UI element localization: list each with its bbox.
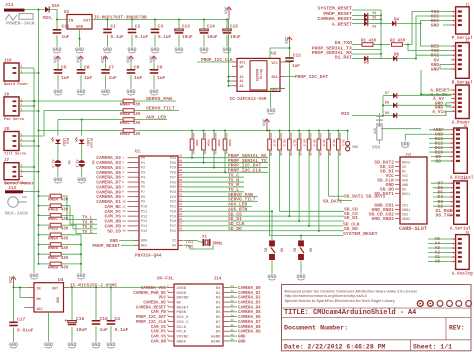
- wire A_3.3V: [421, 70, 451, 94]
- ic U1 P8X32A outline: [135, 150, 178, 250]
- svg-text:C6: C6: [84, 65, 90, 71]
- wire U3 GND down: [79, 29, 81, 46]
- svg-text:R1 430: R1 430: [361, 40, 377, 44]
- svg-text:P2: P2: [141, 167, 145, 171]
- svg-text:CAMERA_NC: CAMERA_NC: [143, 301, 166, 305]
- camera connector J14 outline: [157, 275, 223, 346]
- wires J6 nets: [428, 239, 451, 262]
- crystal X1: [184, 236, 223, 250]
- capacitor C1: [103, 20, 124, 46]
- diode D1: [323, 11, 381, 18]
- label IC-MCP1703T-3002E/DB: [94, 15, 147, 20]
- svg-text:AVDD: AVDD: [177, 287, 187, 291]
- svg-text:24: 24: [231, 310, 235, 313]
- camera connector J14 right pins: [211, 285, 261, 344]
- svg-text:PROP_I2C_DAT: PROP_I2C_DAT: [136, 316, 167, 320]
- capacitor C11: [53, 20, 70, 46]
- svg-text:SD_CD: SD_CD: [107, 228, 121, 234]
- svg-text:SD_D: SD_D: [293, 140, 296, 147]
- voltage regulator U3: [64, 11, 92, 29]
- svg-text:10uF: 10uF: [76, 327, 87, 333]
- resistor RN4D: [120, 129, 141, 137]
- resistor RN6D: [39, 262, 69, 270]
- svg-text:Special thanks to SparkFun Ele: Special thanks to SparkFun Electronics f…: [285, 299, 396, 303]
- diode D5: [335, 55, 381, 66]
- ground under U3: [75, 46, 84, 54]
- resistor pullup R24 10K: [297, 131, 305, 222]
- svg-text:15: 15: [122, 225, 126, 228]
- svg-text:J1: J1: [465, 3, 469, 7]
- card slot J13 data pins: [374, 159, 410, 197]
- ic U2 EEPROM: [232, 51, 285, 93]
- svg-text:DI: DI: [402, 170, 406, 174]
- wire MIX net: [341, 111, 383, 117]
- svg-text:CAMERA_D0: CAMERA_D0: [238, 287, 261, 291]
- wire J1 TXO: [412, 12, 451, 45]
- power jack J11 pad bar: [4, 2, 25, 12]
- connector J2 B_Serial: [451, 38, 473, 85]
- svg-text:14: 14: [122, 220, 126, 223]
- svg-text:C4: C4: [115, 316, 121, 322]
- title block TITLE row: [284, 309, 416, 317]
- svg-text:J4: J4: [463, 177, 467, 181]
- wire PROP_SERIAL_TX right: [312, 45, 381, 51]
- svg-text:U2: U2: [271, 51, 277, 57]
- svg-text:RN5A 430: RN5A 430: [48, 199, 69, 203]
- svg-text:ADJ: ADJ: [37, 308, 43, 312]
- ground under C6: [76, 88, 85, 96]
- svg-text:Document Number:: Document Number:: [284, 325, 348, 333]
- diode D3: [332, 21, 381, 29]
- svg-text:D0_TXO: D0_TXO: [335, 40, 352, 46]
- svg-text:34: 34: [179, 189, 183, 192]
- svg-text:P28: P28: [170, 172, 176, 176]
- svg-text:REV:: REV:: [449, 325, 465, 332]
- svg-text:P3: P3: [141, 172, 145, 176]
- svg-text:SD_D: SD_D: [273, 140, 276, 147]
- resistor RN4A: [120, 99, 141, 107]
- wire SJ2 down: [57, 167, 59, 176]
- title block layer circles: [417, 301, 471, 307]
- ground RN6 bus: [76, 272, 85, 280]
- svg-text:P23: P23: [170, 196, 176, 200]
- svg-text:J11: J11: [5, 2, 14, 8]
- svg-text:16: 16: [122, 230, 126, 233]
- svg-text:Red: Red: [65, 138, 70, 144]
- svg-text:D7: D7: [385, 92, 389, 96]
- svg-text:D5: D5: [364, 62, 370, 66]
- svg-text:OUT: OUT: [83, 20, 91, 24]
- ground under SJ2: [53, 176, 62, 184]
- wire AUX_BTN net: [184, 206, 274, 212]
- svg-text:GND: GND: [238, 336, 246, 340]
- svg-text:SD_D: SD_D: [302, 140, 305, 147]
- svg-text:SD_D: SD_D: [322, 140, 325, 147]
- svg-text:C16: C16: [76, 316, 85, 322]
- jumper SJ3 mix select: [346, 131, 359, 151]
- ground under C3: [150, 46, 159, 54]
- label PROP_RESET at RES: [92, 243, 136, 249]
- svg-text:CAMERA_D7: CAMERA_D7: [238, 321, 261, 325]
- svg-text:CAMERA_PWR_NC: CAMERA_PWR_NC: [133, 292, 166, 296]
- capacitor C7: [101, 63, 117, 88]
- svg-text:NC: NC: [177, 301, 182, 305]
- wire J10 pin stubs: [19, 68, 39, 73]
- labels J5 pins: [433, 127, 444, 164]
- svg-text:R1: R1: [203, 151, 206, 155]
- wire AUX_LED: [134, 115, 167, 121]
- title block frame: [282, 285, 472, 351]
- label P8X32A-Q44: [135, 253, 162, 258]
- wire SD_DAT2 net: [323, 199, 352, 205]
- svg-text:DOVDD: DOVDD: [177, 297, 190, 301]
- svg-text:C12: C12: [293, 54, 301, 59]
- svg-text:24: 24: [231, 295, 235, 298]
- capacitor C16: [65, 288, 88, 341]
- labels J2 pins: [431, 44, 440, 73]
- wire B1 down: [271, 260, 273, 272]
- button B2: [292, 240, 312, 260]
- svg-text:C8: C8: [134, 65, 140, 71]
- ground C10: [91, 341, 100, 349]
- svg-text:D7: D7: [216, 321, 221, 325]
- wire J1 GND: [443, 24, 451, 26]
- resistor pullup R26 10K: [317, 131, 325, 231]
- wire U2 SDA net: [285, 74, 328, 80]
- wire RN4D left: [39, 130, 123, 132]
- card slot J13 detect pins: [369, 203, 410, 222]
- svg-text:0.1uF: 0.1uF: [158, 35, 172, 40]
- svg-text:Sheet: 1/1: Sheet: 1/1: [413, 344, 452, 351]
- svg-text:LED2: LED2: [61, 138, 65, 146]
- resistor pullup R23 10K: [288, 131, 296, 217]
- power VCC arrow above C5: [54, 55, 60, 63]
- wire system reset bus vertical: [269, 234, 271, 236]
- svg-text:C5: C5: [61, 65, 67, 71]
- label J12: [8, 185, 17, 191]
- wire U3 OUT rail VCC: [92, 19, 229, 21]
- svg-text:27: 27: [179, 223, 183, 226]
- wire tilt servo signal: [19, 111, 123, 137]
- label SD_CLK right: [343, 222, 360, 228]
- solder jumper SJ_1: [74, 160, 94, 168]
- svg-text:SD_D: SD_D: [342, 140, 345, 147]
- svg-text:D1: D1: [216, 292, 221, 296]
- wire J2 RES: [421, 24, 452, 47]
- svg-text:IN: IN: [37, 288, 41, 292]
- wire A_RESET stub: [450, 89, 451, 91]
- svg-text:RN4C 430: RN4C 430: [120, 122, 141, 126]
- capacitor C2: [128, 20, 149, 46]
- ic U1 right pins P31-P16 XI XO: [170, 155, 184, 249]
- capacitor C6: [77, 63, 93, 88]
- svg-text:J2: J2: [465, 38, 469, 42]
- svg-text:P5: P5: [141, 181, 145, 185]
- svg-text:J3: J3: [465, 81, 469, 85]
- svg-text:TV_C: TV_C: [82, 230, 93, 235]
- ground under C13: [174, 46, 183, 54]
- wire SYSTEM_RESET top: [317, 5, 381, 11]
- ground under C9: [149, 88, 158, 96]
- ground under C11: [52, 46, 61, 54]
- connector J7 Servo Power: [4, 159, 28, 186]
- svg-text:CAMERA_D1: CAMERA_D1: [238, 292, 261, 296]
- svg-text:C11: C11: [62, 25, 70, 30]
- svg-text:10K: 10K: [319, 133, 322, 139]
- diode D7: [383, 92, 451, 98]
- svg-text:POWER-JACK: POWER-JACK: [6, 21, 35, 27]
- svg-text:VCC: VCC: [225, 6, 229, 14]
- wire J5 GND: [405, 134, 449, 140]
- svg-text:GND: GND: [57, 297, 61, 303]
- power VCC arrow above C9: [150, 55, 156, 63]
- svg-text:P10: P10: [141, 206, 147, 210]
- svg-text:RN6A 430: RN6A 430: [48, 237, 69, 241]
- svg-text:D5: D5: [216, 311, 221, 315]
- svg-text:30: 30: [179, 208, 183, 211]
- wire bus A vertical: [38, 10, 40, 265]
- ic U4 MIC5255: [28, 277, 70, 312]
- svg-text:D8: D8: [435, 158, 441, 164]
- resistor RN5A: [39, 194, 69, 202]
- svg-text:C3: C3: [158, 25, 164, 30]
- svg-text:C9: C9: [157, 65, 163, 71]
- svg-text:PROP: PROP: [207, 140, 210, 147]
- wire D8 net: [431, 160, 449, 162]
- label SD_DI right: [344, 215, 358, 221]
- camera connector J14 left pins: [133, 285, 189, 344]
- ground under C8: [126, 88, 135, 96]
- svg-text:J5: J5: [463, 124, 467, 128]
- svg-text:10K: 10K: [225, 133, 228, 139]
- svg-text:HREF: HREF: [177, 340, 187, 344]
- svg-text:PWDN: PWDN: [177, 311, 187, 315]
- svg-text:D3: D3: [373, 25, 377, 29]
- svg-text:RN4B 430: RN4B 430: [120, 113, 141, 117]
- resistor pullup R25 10K: [307, 131, 315, 226]
- resistor RN4C: [120, 118, 141, 126]
- svg-text:RN6C 430: RN6C 430: [48, 257, 69, 261]
- wire SERVO_PAN net: [184, 192, 259, 198]
- svg-text:P21: P21: [170, 206, 176, 210]
- connector J8 Tilt Servo: [4, 128, 27, 157]
- svg-text:CAMERA_RESET: CAMERA_RESET: [136, 306, 167, 310]
- wire J8 stubs: [19, 141, 39, 146]
- wire PROP_SERIAL_RX right: [312, 50, 381, 56]
- svg-text:Servo Power: Servo Power: [4, 180, 35, 186]
- svg-text:NO: NO: [308, 248, 312, 252]
- capacitor C10: [92, 288, 108, 341]
- svg-text:10K: 10K: [299, 151, 302, 156]
- svg-text:D1_RXI: D1_RXI: [335, 55, 352, 61]
- svg-text:CAMERA_VCC: CAMERA_VCC: [141, 287, 167, 291]
- svg-text:RN5C 430: RN5C 430: [48, 218, 69, 222]
- resistor R2 430: [381, 40, 412, 47]
- svg-text:LED1: LED1: [85, 138, 89, 146]
- svg-text:10K: 10K: [289, 151, 292, 156]
- svg-text:P0: P0: [141, 157, 145, 161]
- svg-text:VCC: VCC: [102, 55, 106, 63]
- svg-text:D10: D10: [52, 5, 60, 9]
- svg-text:R1: R1: [214, 151, 217, 155]
- svg-text:31: 31: [179, 203, 183, 206]
- svg-text:P30: P30: [170, 162, 176, 166]
- capacitor C15: [223, 20, 241, 46]
- wire J9 stubs: [19, 106, 39, 111]
- label IC-MIC5255: [70, 283, 117, 289]
- diode D9: [383, 111, 451, 118]
- svg-text:IN: IN: [69, 20, 74, 24]
- svg-text:SERVO_PAN: SERVO_PAN: [146, 96, 172, 102]
- svg-text:10uF: 10uF: [230, 35, 241, 40]
- svg-text:TITLE: CMUcam4ArduinoShield -: TITLE: CMUcam4ArduinoShield - A4: [284, 309, 416, 317]
- svg-text:VCC: VCC: [286, 36, 290, 44]
- resistor RN6A: [39, 233, 69, 241]
- svg-text:J13: J13: [405, 154, 411, 158]
- svg-text:D1: D1: [373, 11, 377, 15]
- svg-text:24: 24: [231, 324, 235, 327]
- wire TV_L net: [184, 187, 245, 193]
- svg-text:24: 24: [231, 314, 235, 317]
- ground U4: [44, 341, 53, 349]
- svg-text:RESET: RESET: [177, 306, 190, 310]
- title block license text: [285, 290, 418, 303]
- svg-text:10K: 10K: [338, 133, 341, 139]
- svg-text:RN5B 430: RN5B 430: [48, 208, 69, 212]
- svg-text:41: 41: [179, 155, 183, 158]
- wire PROP_I2C_CLK top: [197, 58, 233, 63]
- power VCC arrow top rail: [225, 6, 231, 20]
- svg-text:C14: C14: [207, 25, 215, 30]
- svg-text:D4: D4: [394, 19, 400, 23]
- svg-text:RN4A 430: RN4A 430: [120, 104, 141, 108]
- svg-text:D2: D2: [216, 297, 221, 301]
- capacitor C12: [270, 43, 301, 131]
- wire VCC to U4 IN: [13, 287, 29, 289]
- wire B2 up: [300, 236, 302, 240]
- svg-text:33: 33: [179, 193, 183, 196]
- wire SD_CD net: [280, 207, 359, 213]
- svg-text:10uF: 10uF: [182, 35, 193, 40]
- led LED1 Green: [75, 138, 93, 149]
- svg-text:10: 10: [122, 200, 126, 203]
- connector J11 POWER-JACK symbol: [5, 14, 35, 27]
- svg-text:CD2: CD2: [402, 213, 408, 217]
- svg-text:VCC: VCC: [150, 55, 154, 63]
- svg-text:+: +: [65, 319, 68, 324]
- ground B1: [267, 273, 276, 281]
- svg-text:SJ_2: SJ_2: [50, 160, 54, 168]
- svg-text:SD_DO: SD_DO: [228, 226, 242, 232]
- ic U1 left pins P0-P15 BOE RES: [122, 157, 147, 249]
- label Servo Power J7: [4, 180, 35, 186]
- svg-text:BOE: BOE: [141, 240, 147, 244]
- connector J6 A_Analog: [451, 230, 473, 276]
- svg-text:29: 29: [179, 213, 183, 216]
- wire AREF: [381, 129, 449, 130]
- svg-text:PROP_RESET: PROP_RESET: [92, 243, 120, 249]
- svg-text:P27: P27: [170, 176, 176, 180]
- svg-text:P_Serial: P_Serial: [452, 36, 473, 41]
- svg-text:Array: Array: [259, 69, 264, 79]
- svg-text:P12: P12: [141, 215, 147, 219]
- svg-text:RSV2: RSV2: [402, 161, 410, 165]
- resistor RN5B: [39, 204, 69, 212]
- svg-text:A_Digital: A_Digital: [450, 175, 474, 180]
- svg-text:10K: 10K: [279, 133, 282, 139]
- power VCC arrow U4: [10, 275, 16, 287]
- labels J3 pins: [430, 88, 450, 115]
- ground C4: [106, 341, 115, 349]
- svg-text:CAM_PC: CAM_PC: [151, 331, 167, 335]
- svg-text:10K: 10K: [309, 133, 312, 139]
- svg-text:PROP: PROP: [195, 140, 198, 147]
- svg-text:GND: GND: [238, 340, 246, 344]
- svg-text:Pan Servo: Pan Servo: [4, 118, 25, 122]
- svg-text:1uF: 1uF: [84, 75, 93, 81]
- svg-text:D6: D6: [394, 54, 400, 58]
- svg-text:NO: NO: [279, 248, 283, 252]
- wire TV_H net: [184, 177, 245, 183]
- svg-text:A0: A0: [240, 85, 244, 89]
- wire J2 RXI: [416, 55, 451, 58]
- connector J3 A_Power: [451, 81, 470, 126]
- wire A_Power bus vertical: [420, 93, 422, 95]
- resistor RN6B: [39, 243, 69, 251]
- wire SD_CS net: [184, 211, 345, 217]
- ground A_Digital: [401, 140, 410, 148]
- label CARD-SLOT: [399, 226, 427, 232]
- wire D12: [429, 142, 449, 144]
- ground under C7: [101, 88, 110, 96]
- svg-text:P20: P20: [170, 210, 176, 214]
- wire U2 GND: [271, 88, 284, 106]
- ground under C15: [222, 46, 231, 54]
- connector J5 A_Digital: [449, 124, 474, 181]
- svg-text:GND: GND: [271, 88, 277, 92]
- svg-text:CAMERA_D9: CAMERA_D9: [238, 331, 261, 335]
- svg-text:PROP: PROP: [217, 140, 220, 147]
- svg-text:C10: C10: [100, 316, 109, 322]
- wires J4 nets: [431, 183, 449, 206]
- labels J1 pins: [431, 9, 440, 29]
- svg-text:Board Power: Board Power: [4, 82, 28, 87]
- connector J10 Board Power: [4, 59, 28, 87]
- wire TV_C: [61, 225, 97, 235]
- wire U4 ADJ stub: [24, 307, 28, 309]
- labels U1 left camera nets: [96, 155, 121, 234]
- svg-text:SD_DI: SD_DI: [344, 215, 358, 221]
- diode D2: [317, 15, 381, 22]
- svg-text:P11: P11: [141, 210, 147, 214]
- svg-text:Released under the Creative Co: Released under the Creative Commons Attr…: [285, 290, 418, 294]
- label IC-24FC512-VSM: [230, 97, 267, 102]
- svg-text:DGND: DGND: [211, 340, 221, 344]
- svg-text:P18: P18: [170, 220, 176, 224]
- wire SERVO_TILT: [134, 106, 179, 112]
- svg-text:24: 24: [231, 300, 235, 303]
- resistor RN4B: [120, 109, 141, 117]
- ground C16: [67, 341, 76, 349]
- svg-text:C2: C2: [135, 25, 141, 30]
- svg-text:SIO_D: SIO_D: [177, 316, 190, 320]
- svg-text:1uF: 1uF: [61, 75, 70, 81]
- svg-text:SD_D: SD_D: [312, 140, 315, 147]
- svg-text:1uF: 1uF: [157, 75, 166, 81]
- svg-text:P22: P22: [170, 201, 176, 205]
- svg-text:A2: A2: [240, 76, 244, 80]
- svg-text:SD_D: SD_D: [283, 140, 286, 147]
